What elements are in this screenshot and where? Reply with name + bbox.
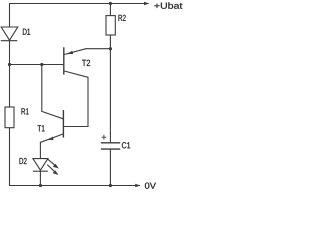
- transistor T1 (NPN, mirrored): base bar and emitter diagonal: [41, 110, 64, 142]
- wire C1 bottom lead to ground rail: [109, 149, 111, 185]
- node dot: C1 bottom on ground rail: [109, 184, 112, 187]
- wire T1 emitter down to D2 anode: [39, 142, 41, 158]
- label R2: [119, 15, 126, 21]
- wire top supply rail from D1 anode to +Ubat: [10, 4, 149, 28]
- wire T2 base rail: [10, 64, 64, 66]
- diode D1: [1, 27, 18, 41]
- LED D2 emission arrow 1: [47, 159, 59, 169]
- wire D1 cathode down to R1 top: [9, 41, 11, 108]
- 0V terminal arrow: [135, 184, 140, 188]
- LED D2 emission arrow 2: [47, 165, 58, 175]
- wire T2 collector drop to T1 base: [64, 77, 88, 126]
- node dot: R2 bottom / T2 emitter / C1 top: [109, 47, 112, 50]
- wire R2 top drop from supply rail: [109, 4, 111, 16]
- +Ubat terminal arrow: [144, 2, 149, 6]
- label R1: [22, 108, 29, 114]
- label D2: [20, 158, 27, 164]
- wire bottom ground rail from R1 to 0V: [10, 128, 140, 186]
- label 0V: [145, 183, 156, 189]
- label D1: [23, 29, 30, 35]
- node dot: supply rail / R2 top: [109, 2, 112, 5]
- label T2: [82, 60, 90, 66]
- T2 emitter arrowhead: [67, 51, 73, 54]
- transistor T2 (PNP): base bar, emitter to upper right, collector to lower right: [64, 47, 88, 77]
- label C1: [122, 142, 130, 148]
- C1 polarity plus sign: [102, 135, 107, 140]
- capacitor C1 (electrolytic, two plates): [101, 143, 120, 149]
- T1 emitter arrowhead: [47, 137, 53, 141]
- node dot: T1 collector tap on base rail: [40, 63, 43, 66]
- wire R2 bottom lead: [109, 35, 111, 49]
- wire T1 collector riser to T2 base rail: [42, 65, 64, 119]
- wire T2 emitter to R2 bottom node: [86, 48, 110, 50]
- wire D2 cathode to ground rail: [39, 171, 41, 185]
- node dot: D1 rail / T2 base rail: [8, 63, 11, 66]
- node dot: D2 cathode on ground rail: [39, 184, 42, 187]
- resistor R1: [5, 107, 14, 128]
- label T1: [38, 125, 45, 131]
- wire node down to C1 top plate: [109, 49, 111, 143]
- LED D2: triangle and cathode bar: [33, 159, 48, 172]
- resistor R2: [106, 16, 115, 35]
- label +Ubat: [154, 2, 182, 8]
